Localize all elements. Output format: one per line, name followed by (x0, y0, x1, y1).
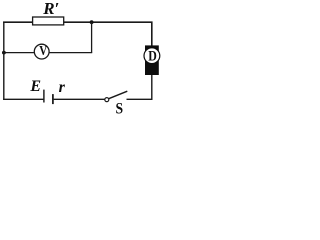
wire left vertical (3, 22, 5, 100)
resistor R' (33, 0, 64, 25)
wire voltmeter branch right segment (49, 52, 92, 54)
wire voltmeter branch vertical (91, 22, 93, 52)
svg-text:V: V (39, 43, 47, 58)
node junction dot left (2, 51, 6, 55)
svg-text:r: r (59, 79, 66, 96)
node junction dot top (90, 20, 94, 24)
svg-text:D: D (148, 48, 157, 64)
wire top-right segment with right vertical upper (63, 22, 151, 46)
svg-text:S: S (116, 101, 124, 118)
battery cell E (44, 90, 53, 105)
wire bottom-left segment (3, 98, 43, 100)
svg-text:E: E (29, 78, 41, 95)
svg-text:R′: R′ (42, 0, 59, 18)
wire voltmeter branch left segment (4, 52, 35, 54)
wire bottom-right segment with right vertical lower (127, 75, 152, 100)
wire bottom mid segment (54, 98, 105, 100)
voltmeter V1 (34, 43, 49, 59)
wire top-left segment (3, 21, 33, 23)
motor D (144, 45, 160, 75)
switch S (105, 91, 128, 117)
